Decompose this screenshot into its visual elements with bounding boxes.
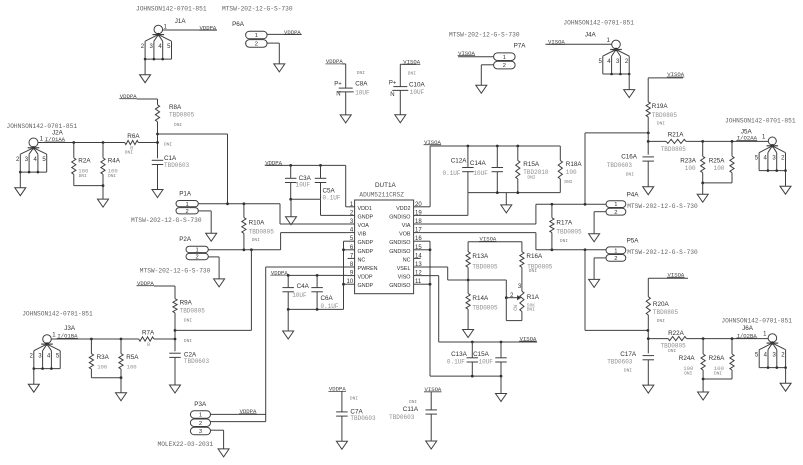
svg-text:DNI: DNI: [174, 122, 182, 128]
svg-text:DNI: DNI: [409, 399, 417, 405]
svg-text:R2A: R2A: [78, 158, 91, 165]
svg-text:100: 100: [566, 169, 577, 176]
svg-text:TBD0603: TBD0603: [184, 358, 210, 365]
svg-text:DNI: DNI: [657, 121, 665, 127]
svg-text:2: 2: [255, 42, 258, 48]
svg-text:JOHNSON142-0701-851: JOHNSON142-0701-851: [563, 20, 634, 27]
svg-text:2: 2: [503, 63, 506, 69]
svg-text:R20A: R20A: [653, 301, 670, 308]
svg-text:GNDP: GNDP: [358, 283, 374, 289]
svg-text:MTSW-202-12-G-S-730: MTSW-202-12-G-S-730: [222, 5, 293, 12]
svg-text:TBD0603: TBD0603: [350, 415, 376, 422]
svg-text:C5A: C5A: [323, 188, 336, 195]
svg-text:DNI: DNI: [108, 173, 116, 179]
svg-text:10UF: 10UF: [473, 170, 488, 177]
svg-text:TBD0805: TBD0805: [661, 146, 687, 153]
svg-text:VOA: VOA: [358, 223, 370, 229]
svg-text:DNI: DNI: [529, 268, 537, 274]
svg-text:VIB: VIB: [358, 232, 367, 238]
svg-text:P5A: P5A: [627, 238, 640, 245]
svg-text:0.1UF: 0.1UF: [443, 170, 461, 177]
svg-text:J3A: J3A: [64, 325, 76, 332]
svg-text:JOHNSON142-0701-851: JOHNSON142-0701-851: [725, 118, 796, 125]
svg-text:2: 2: [186, 209, 189, 215]
svg-text:R24A: R24A: [679, 355, 696, 362]
svg-text:P3A: P3A: [194, 401, 207, 408]
svg-text:0.1UF: 0.1UF: [447, 359, 465, 366]
svg-text:P4A: P4A: [627, 192, 640, 199]
svg-text:GNDISO: GNDISO: [389, 214, 410, 220]
svg-text:100: 100: [714, 165, 725, 172]
svg-text:TBD0805: TBD0805: [249, 228, 275, 235]
svg-text:GNDP: GNDP: [358, 249, 374, 255]
svg-text:JOHNSON142-0701-851: JOHNSON142-0701-851: [136, 5, 207, 12]
svg-text:GNDP: GNDP: [358, 240, 374, 246]
svg-text:P7A: P7A: [514, 43, 527, 50]
svg-text:TBD0603: TBD0603: [389, 414, 415, 421]
svg-text:C10A: C10A: [409, 82, 426, 89]
svg-text:TBD0805: TBD0805: [652, 112, 678, 119]
svg-text:J1A: J1A: [175, 18, 187, 25]
svg-text:10UF: 10UF: [479, 359, 494, 366]
svg-text:1: 1: [196, 248, 199, 254]
svg-text:100: 100: [685, 165, 696, 172]
svg-text:GNDISO: GNDISO: [389, 283, 410, 289]
svg-text:10UF: 10UF: [292, 292, 307, 299]
svg-text:R16A: R16A: [526, 253, 543, 260]
svg-text:JOHNSON142-0701-851: JOHNSON142-0701-851: [7, 123, 78, 130]
svg-text:TBD0805: TBD0805: [472, 304, 498, 311]
svg-text:R17A: R17A: [556, 220, 573, 227]
svg-text:DNI: DNI: [350, 395, 358, 401]
svg-text:GNDISO: GNDISO: [389, 240, 410, 246]
svg-text:R15A: R15A: [523, 161, 540, 168]
svg-text:DNI: DNI: [668, 348, 676, 354]
svg-text:MTSW-202-12-G-S-730: MTSW-202-12-G-S-730: [449, 31, 520, 38]
svg-text:NC: NC: [403, 257, 411, 263]
svg-text:DNI: DNI: [657, 318, 665, 324]
svg-text:R26A: R26A: [709, 355, 726, 362]
svg-text:VSEL: VSEL: [397, 266, 411, 272]
svg-text:3: 3: [199, 429, 202, 435]
svg-text:MTSW-202-12-G-S-730: MTSW-202-12-G-S-730: [131, 217, 202, 224]
svg-text:DNI: DNI: [252, 237, 260, 243]
svg-text:TBD0805: TBD0805: [180, 307, 206, 314]
svg-text:TBD0805: TBD0805: [556, 228, 582, 235]
svg-text:C13A: C13A: [451, 351, 468, 358]
svg-text:TBD0805: TBD0805: [169, 112, 195, 119]
svg-text:0.1UF: 0.1UF: [323, 195, 341, 202]
svg-text:P6A: P6A: [232, 21, 245, 28]
svg-text:R18A: R18A: [566, 161, 583, 168]
svg-text:VOB: VOB: [399, 232, 411, 238]
svg-text:DNI: DNI: [527, 175, 535, 181]
svg-text:TBD0603: TBD0603: [607, 162, 633, 169]
svg-text:1: 1: [614, 248, 617, 254]
svg-text:PWREN: PWREN: [358, 266, 378, 272]
svg-text:DNI: DNI: [626, 171, 634, 177]
svg-text:P+: P+: [334, 82, 342, 88]
svg-text:JOHNSON142-0701-851: JOHNSON142-0701-851: [721, 318, 792, 325]
svg-text:NC: NC: [358, 257, 366, 263]
svg-text:TBD0603: TBD0603: [607, 359, 633, 366]
svg-text:1: 1: [255, 33, 258, 39]
svg-text:VDDP: VDDP: [358, 275, 373, 281]
svg-text:VDD1: VDD1: [358, 206, 372, 212]
svg-text:10: 10: [347, 279, 354, 285]
svg-text:R3A: R3A: [97, 354, 110, 361]
svg-text:J6A: J6A: [742, 325, 754, 332]
svg-text:DNI: DNI: [527, 306, 535, 312]
svg-text:C8A: C8A: [355, 81, 368, 88]
svg-text:C15A: C15A: [473, 351, 490, 358]
svg-text:R10A: R10A: [249, 220, 266, 227]
svg-text:2: 2: [614, 256, 617, 262]
svg-text:P1A: P1A: [179, 190, 192, 197]
svg-text:DNI: DNI: [164, 142, 172, 148]
svg-text:VIA: VIA: [402, 223, 411, 229]
svg-text:DNI: DNI: [184, 318, 192, 324]
svg-text:R4A: R4A: [108, 158, 121, 165]
svg-text:2: 2: [199, 421, 202, 427]
svg-text:VDD2: VDD2: [396, 206, 410, 212]
svg-text:1: 1: [199, 413, 202, 419]
svg-text:100: 100: [97, 364, 108, 371]
svg-text:JOHNSON142-0701-851: JOHNSON142-0701-851: [22, 311, 93, 318]
svg-text:1: 1: [503, 55, 506, 61]
svg-text:R13A: R13A: [472, 253, 489, 260]
svg-text:C16A: C16A: [621, 154, 638, 161]
svg-text:R14A: R14A: [472, 295, 489, 302]
svg-text:C6A: C6A: [321, 295, 334, 302]
svg-text:R6A: R6A: [127, 133, 140, 140]
svg-text:CW: CW: [513, 305, 519, 311]
svg-text:R23A: R23A: [680, 157, 697, 164]
svg-text:MTSW-202-12-G-S-730: MTSW-202-12-G-S-730: [140, 268, 211, 275]
svg-text:C4A: C4A: [297, 283, 310, 290]
svg-text:VISO: VISO: [398, 275, 411, 281]
svg-text:DNI: DNI: [560, 238, 568, 244]
svg-text:DNI: DNI: [125, 150, 133, 156]
svg-text:TBD0603: TBD0603: [164, 162, 190, 169]
svg-text:100: 100: [127, 364, 138, 371]
svg-text:10UF: 10UF: [296, 182, 311, 189]
svg-text:10UF: 10UF: [410, 89, 425, 96]
svg-text:C17A: C17A: [620, 351, 637, 358]
svg-text:MOLEX22-03-2031: MOLEX22-03-2031: [158, 441, 214, 448]
svg-text:N: N: [390, 92, 394, 98]
svg-text:R19A: R19A: [652, 103, 669, 110]
svg-text:14: 14: [415, 253, 422, 259]
svg-text:R7A: R7A: [142, 330, 155, 337]
svg-text:GNDISO: GNDISO: [389, 249, 410, 255]
svg-text:TBD0805: TBD0805: [472, 263, 498, 270]
svg-text:C14A: C14A: [470, 160, 487, 167]
svg-text:R8A: R8A: [169, 104, 182, 111]
svg-text:R21A: R21A: [668, 131, 685, 138]
svg-text:ADUM5211CRSZ: ADUM5211CRSZ: [359, 191, 404, 198]
svg-text:C1A: C1A: [164, 155, 177, 162]
svg-text:MTSW-202-12-G-S-730: MTSW-202-12-G-S-730: [627, 249, 698, 256]
svg-text:R9A: R9A: [180, 300, 193, 307]
svg-text:10UF: 10UF: [355, 90, 370, 97]
svg-text:GNDP: GNDP: [358, 214, 374, 220]
svg-text:P2A: P2A: [179, 236, 192, 243]
svg-text:2: 2: [614, 210, 617, 216]
svg-text:C11A: C11A: [403, 406, 419, 413]
svg-text:TBD0805: TBD0805: [653, 309, 679, 316]
svg-text:J4A: J4A: [585, 32, 597, 39]
svg-text:DNI: DNI: [357, 70, 365, 76]
svg-text:R22A: R22A: [668, 330, 685, 337]
svg-text:C12A: C12A: [451, 158, 468, 165]
svg-text:2: 2: [196, 255, 199, 261]
svg-text:R1A: R1A: [527, 294, 540, 301]
svg-text:1: 1: [186, 202, 189, 208]
svg-text:DNI: DNI: [624, 367, 632, 373]
svg-text:DNI: DNI: [184, 338, 192, 344]
svg-text:R5A: R5A: [126, 354, 139, 361]
svg-text:DNI: DNI: [714, 370, 722, 376]
svg-text:DNI: DNI: [684, 370, 692, 376]
svg-text:N: N: [336, 92, 340, 98]
svg-text:R25A: R25A: [709, 157, 726, 164]
svg-text:P+: P+: [389, 81, 397, 87]
svg-text:DNI: DNI: [79, 173, 87, 179]
svg-text:DNI: DNI: [564, 179, 572, 185]
svg-text:DUT1A: DUT1A: [375, 182, 396, 189]
svg-text:MTSW-202-12-G-S-730: MTSW-202-12-G-S-730: [627, 203, 698, 210]
svg-text:DNI: DNI: [408, 70, 416, 76]
svg-text:1: 1: [614, 202, 617, 208]
